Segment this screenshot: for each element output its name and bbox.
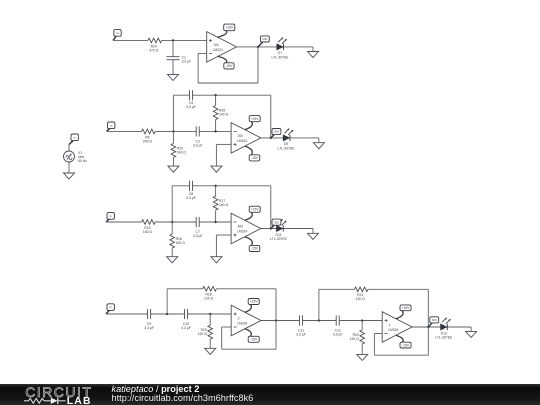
ground right of D7 (308, 52, 319, 58)
wire LED D9 to ground (318, 138, 320, 143)
wire C2 to inverting input (199, 130, 231, 132)
wire V1 bottom lead (68, 162, 70, 173)
node flag in (stage 200) (107, 122, 115, 131)
wire C1 to ground (172, 60, 174, 75)
power flag +15V (op-amp 2) (245, 299, 259, 313)
wire R16 to ground (171, 248, 173, 257)
svg-text:1: 1 (389, 323, 391, 327)
node flag 200 (271, 129, 281, 138)
wire up to R18 (166, 289, 168, 314)
svg-text:in: in (110, 305, 113, 309)
power flag +15V (stage 300) (245, 206, 260, 220)
svg-text:3.3 µF: 3.3 µF (333, 333, 343, 337)
resistor R26 240 Ω (feedback) (213, 106, 228, 120)
svg-text:200: 200 (274, 130, 279, 134)
svg-text:+15V: +15V (251, 207, 260, 211)
node junction stage 200 output (node 200) (270, 137, 272, 139)
wire non-inverting input left (stage 300) (216, 234, 231, 236)
wire R24 to op-amp U1 non-inverting input (162, 39, 207, 41)
ground right of D11 (308, 233, 319, 239)
capacitor C4 3.3 µF (feedback) (186, 90, 196, 109)
power flag -15V (stage 1) (218, 56, 235, 69)
ground below R20 (357, 354, 368, 360)
svg-text:-15V: -15V (225, 64, 233, 68)
ground below V1 (64, 173, 75, 179)
wire feedback vertical upper (op-amp 1) (427, 289, 429, 327)
capacitor C12 3.3 uF (333, 315, 343, 336)
wire C12 to op-amp 1 input (339, 320, 382, 322)
LED D7 LTL-307EE (272, 38, 290, 60)
svg-text:LM324: LM324 (237, 322, 247, 326)
wire C11 to C12 (303, 320, 337, 322)
svg-text:80 Hz: 80 Hz (78, 159, 87, 163)
svg-text:-15V: -15V (251, 156, 259, 160)
node junction stage 300 output (node 300) (270, 227, 272, 229)
capacitor C1 3.3 uF (166, 56, 191, 64)
wire R26 to inverting node (215, 120, 217, 132)
wire feedback to inverting input (op-amp 1) (374, 333, 382, 335)
node junction C11/R21 (318, 319, 320, 321)
wire up to C4 (172, 95, 174, 131)
svg-text:LTL-307EE: LTL-307EE (435, 336, 453, 340)
wire in to R15 (106, 221, 142, 223)
wire R15 to C7 (155, 221, 196, 223)
voltage source V1 sine 80 Hz (64, 151, 88, 163)
node flag in (V1) (69, 134, 78, 145)
svg-text:LM324: LM324 (388, 328, 398, 332)
node junction op-amp 2 output (275, 319, 277, 321)
svg-text:3.3 µF: 3.3 µF (186, 196, 196, 200)
svg-text:160 Ω: 160 Ω (176, 241, 186, 245)
power flag +15V (op-amp 1) (396, 305, 411, 319)
power flag -15V (stage 200) (245, 146, 260, 161)
power flag -15V (stage 300) (245, 237, 260, 252)
svg-text:in: in (110, 123, 113, 127)
wire feedback down (stage 1) (257, 47, 259, 83)
wire feedback up (stage 1) (197, 53, 199, 83)
node flag in (stage 300) (106, 213, 114, 222)
svg-text:LTL-307EE: LTL-307EE (278, 147, 296, 151)
ground below R16 (167, 257, 178, 263)
ground below R25 (168, 166, 179, 172)
svg-text:3.3 µF: 3.3 µF (193, 143, 203, 147)
capacitor C9 3.3 uF (144, 309, 154, 330)
wire feedback vertical (stage 300) (270, 186, 272, 229)
wire R25 to ground (172, 158, 174, 167)
svg-text:D9: D9 (284, 142, 288, 146)
wire R18 to output feedback (216, 288, 276, 290)
power flag -15V (op-amp 2) (245, 329, 259, 343)
wire feedback vertical upper (op-amp 2) (275, 289, 277, 321)
resistor R15 160 Ω (142, 220, 156, 234)
node flag 400 (428, 317, 438, 327)
svg-text:D7: D7 (278, 51, 282, 55)
svg-text:+15V: +15V (402, 306, 411, 310)
svg-text:100: 100 (213, 43, 219, 47)
svg-text:3.3 µF: 3.3 µF (182, 60, 192, 64)
LED D11 LTL-307EE (270, 219, 288, 241)
wire LED D7 to ground (312, 47, 314, 52)
svg-text:240 Ω: 240 Ω (219, 113, 229, 117)
svg-text:LAB: LAB (67, 396, 92, 405)
ground below R19 (205, 348, 216, 354)
svg-text:-15V: -15V (250, 338, 258, 342)
svg-text:http://circuitlab.com/ch3m6hrf: http://circuitlab.com/ch3m6hrffc8k6 (112, 393, 254, 403)
wire R20 to ground (361, 344, 363, 354)
wire in to R24 (113, 39, 148, 41)
svg-text:3.3 µF: 3.3 µF (144, 326, 154, 330)
wire op-amp 2 output to C11 (261, 320, 300, 322)
resistor R18 120 Ohm (feedback) (203, 287, 217, 301)
svg-text:120 Ω: 120 Ω (204, 297, 214, 301)
svg-text:LTL-307EE: LTL-307EE (270, 237, 288, 241)
wire up to R21 (318, 289, 320, 320)
svg-text:D11: D11 (276, 233, 282, 237)
svg-text:LM324: LM324 (237, 139, 247, 143)
resistor R21 120 Ohm (feedback) (354, 287, 368, 301)
wire to C8 (172, 185, 189, 187)
wire in to C9 (106, 313, 148, 315)
node flag 300 (271, 219, 281, 228)
wire C9 to C10 (151, 313, 185, 315)
wire non-inverting input left (stage 200) (216, 143, 231, 145)
svg-text:-15V: -15V (402, 343, 410, 347)
wire R9 to C2 (155, 130, 196, 132)
node flag 100 (258, 36, 269, 47)
op-amp 2 LM324 (231, 305, 261, 336)
node junction C12/R20 (361, 319, 363, 321)
ground right of D9 (313, 143, 324, 149)
node junction C9/C10/R18 (166, 313, 168, 315)
capacitor C2 3.3 µF (series) (193, 126, 203, 147)
node junction R24/C1 (172, 39, 174, 41)
wire down to R17 (215, 186, 217, 196)
ground at non-inverting input (stage 300) (211, 257, 222, 263)
CircuitLab logo diode symbol (51, 398, 58, 404)
LED D13 LTL-307EE (435, 318, 453, 340)
wire feedback vertical lower (op-amp 2) (275, 321, 277, 350)
wire R19 to ground (209, 339, 211, 348)
capacitor C7 3.3 µF (series) (193, 217, 203, 238)
capacitor C11 3.3 uF (296, 315, 306, 336)
wire down to R19 (209, 314, 211, 325)
power flag +15V (stage 1) (218, 24, 235, 37)
svg-text:300: 300 (238, 225, 244, 229)
capacitor C10 3.3 uF (181, 309, 191, 330)
wire down to C1 (172, 40, 174, 56)
svg-text:D13: D13 (441, 331, 447, 335)
wire feedback up (op-amp 1) (373, 334, 375, 356)
node junction C8/R17 (214, 185, 216, 187)
wire to R21 (319, 288, 355, 290)
wire op-amp U1 output to LED D7 (237, 46, 314, 48)
node junction op-amp 1 output (node 400) (427, 326, 429, 328)
wire feedback bottom (stage 1) (198, 82, 258, 84)
node flag in (stage 4) (106, 304, 114, 314)
svg-text:-15V: -15V (251, 247, 259, 251)
resistor R9 240 Ω (142, 129, 156, 143)
svg-text:+15V: +15V (225, 26, 234, 30)
wire C4 to output feedback (193, 94, 271, 96)
wire down to R16 (171, 222, 173, 234)
node junction R26 bottom (214, 130, 216, 132)
wire V1 top lead (68, 145, 70, 152)
wire non-inverting input down (stage 300) (215, 235, 217, 257)
wire feedback to inverting input (op-amp 2) (222, 326, 232, 328)
op-amp 300 LM324 (231, 213, 261, 244)
wire op-amp 1 output to LED D13 (412, 326, 471, 328)
wire down to R25 (172, 131, 174, 143)
svg-text:3.3 µF: 3.3 µF (181, 326, 191, 330)
capacitor C8 3.3 µF (feedback) (186, 181, 196, 200)
wire to R18 (167, 288, 203, 290)
wire down to R20 (361, 321, 363, 331)
svg-text:+15V: +15V (250, 300, 259, 304)
svg-text:100: 100 (262, 37, 267, 41)
svg-text:2: 2 (238, 317, 240, 321)
wire LED D11 to ground (312, 229, 314, 234)
svg-text:400: 400 (432, 318, 437, 322)
resistor R24 470 Ohm (148, 38, 162, 52)
power flag -15V (op-amp 1) (396, 335, 411, 348)
wire feedback up (op-amp 2) (221, 327, 223, 349)
wire non-inverting input down (stage 200) (215, 144, 217, 166)
wire feedback vertical lower (op-amp 1) (427, 327, 429, 355)
svg-text:160 Ω: 160 Ω (219, 203, 229, 207)
svg-text:240 Ω: 240 Ω (177, 151, 187, 155)
wire up to C8 (171, 186, 173, 222)
wire C8 to output feedback (193, 185, 271, 187)
svg-text:300: 300 (274, 220, 279, 224)
wire feedback bottom (op-amp 2) (222, 348, 276, 350)
svg-text:200: 200 (238, 134, 244, 138)
wire to C4 (173, 94, 189, 96)
wire R21 to output feedback (368, 288, 428, 290)
svg-text:3.3 µF: 3.3 µF (186, 105, 196, 109)
svg-text:3.3 µF: 3.3 µF (296, 333, 306, 337)
LED D9 LTL-307EE (278, 129, 296, 151)
wire C10 to op-amp 2 input (188, 313, 232, 315)
svg-text:470 Ω: 470 Ω (149, 48, 159, 52)
svg-text:240 Ω: 240 Ω (143, 139, 153, 143)
op-amp U1 (100) LM324 (207, 32, 237, 63)
op-amp 200 LM324 (231, 123, 261, 154)
CircuitLab logo resistor zigzag (24, 398, 51, 403)
resistor R25 240 Ω (shunt) (171, 144, 186, 158)
node junction stage1 output (node 100) (257, 46, 259, 48)
resistor R20 120 Ohm (shunt) (350, 330, 365, 344)
resistor R17 160 Ω (feedback) (213, 196, 228, 210)
node junction C4/R26 (214, 94, 216, 96)
ground right of D13 (466, 331, 477, 337)
ground below C1 (168, 74, 179, 80)
wire down to R26 (215, 95, 217, 105)
svg-text:in: in (116, 31, 119, 35)
wire R17 to inverting node (215, 210, 217, 222)
svg-text:in: in (74, 135, 77, 139)
wire op-amp 300 output to LED D11 (261, 228, 313, 230)
wire LED D13 to ground (470, 327, 472, 331)
footer black bar (0, 384, 540, 405)
op-amp 1 LM324 (382, 312, 412, 343)
svg-text:120 Ω: 120 Ω (198, 332, 208, 336)
svg-text:LTL-307EE: LTL-307EE (272, 56, 290, 60)
node junction R17 bottom (214, 221, 216, 223)
wire feedback vertical (stage 200) (270, 95, 272, 138)
svg-text:120 Ω: 120 Ω (350, 337, 360, 341)
wire feedback to inverting input (stage 1) (198, 52, 207, 54)
resistor R19 120 Ohm (shunt) (198, 325, 213, 339)
svg-text:160 Ω: 160 Ω (143, 230, 153, 234)
svg-text:120 Ω: 120 Ω (356, 297, 366, 301)
wire C7 to inverting input (199, 221, 231, 223)
node junction R9/R25/C4 (172, 130, 174, 132)
wire in to R9 (107, 130, 142, 132)
ground at non-inverting input (stage 200) (211, 166, 222, 172)
svg-text:+15V: +15V (251, 117, 260, 121)
wire op-amp 200 output to LED D9 (261, 137, 319, 139)
node junction R15/R16/C8 (171, 221, 173, 223)
node junction C10/R19 (209, 313, 211, 315)
svg-text:LM324: LM324 (237, 230, 247, 234)
wire feedback bottom (op-amp 1) (374, 354, 428, 356)
svg-text:LM324: LM324 (213, 48, 223, 52)
power flag +15V (stage 200) (245, 116, 260, 130)
node flag in (stage 1) (113, 30, 121, 41)
svg-text:in: in (110, 214, 113, 218)
resistor R16 160 Ω (shunt) (170, 234, 185, 248)
svg-text:3.3 µF: 3.3 µF (193, 234, 203, 238)
